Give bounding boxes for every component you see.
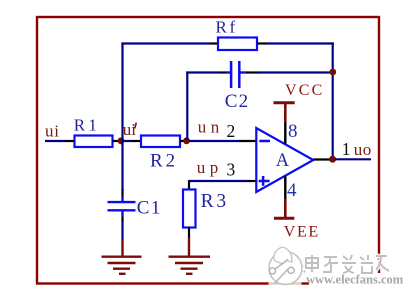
wire C2 branch horizontal: [186, 71, 219, 73]
watermark logo circle: [269, 247, 306, 286]
svg-text:ui: ui: [123, 120, 137, 139]
svg-text:2: 2: [227, 121, 236, 141]
node ui' junction dot: [118, 137, 125, 144]
wire up / pin3: [189, 180, 248, 182]
resistor R1: [65, 115, 119, 147]
svg-text:3: 3: [227, 160, 236, 180]
svg-text:ui: ui: [45, 121, 60, 140]
watermark: white occlusion of border under logo text: [376, 273, 383, 286]
svg-text:www.elecfans.com: www.elecfans.com: [306, 273, 404, 287]
node un junction dot: [183, 137, 190, 144]
svg-text:un: un: [198, 117, 224, 136]
wire ui input: [45, 140, 66, 142]
svg-text:VEE: VEE: [284, 223, 320, 240]
svg-text:R2: R2: [150, 151, 178, 172]
svg-text:R3: R3: [201, 191, 229, 212]
wire un to op-amp pin 2: [189, 140, 239, 142]
svg-text:4: 4: [287, 180, 297, 201]
output pin wire: [313, 158, 330, 160]
svg-text:Rf: Rf: [216, 18, 238, 37]
wire C2 branch vertical: [186, 72, 188, 141]
svg-text:C1: C1: [137, 197, 162, 218]
svg-text:1: 1: [342, 139, 351, 159]
minus input mark: [259, 140, 270, 143]
VEE power symbol: [274, 199, 320, 240]
junction dot C2/Rf net: [329, 69, 336, 76]
pin 4 wire: [284, 176, 286, 199]
svg-text:uo: uo: [354, 140, 372, 159]
ground (under R3): [169, 238, 211, 274]
capacitor C1: [108, 189, 162, 222]
svg-text:A: A: [276, 151, 290, 171]
watermark text 电子发烧友 (approximated strokes, white underlay): [306, 255, 389, 273]
ground (under C1): [102, 240, 142, 274]
wire ui' to R2: [123, 140, 132, 142]
wire C1 to ground: [121, 222, 123, 241]
node uo junction dot: [329, 156, 336, 163]
wire uo: [335, 158, 371, 160]
border frame: [37, 17, 379, 284]
svg-text:C2: C2: [225, 91, 250, 112]
op-amp U A: [256, 128, 313, 192]
capacitor C2: [219, 61, 258, 112]
wire right vertical (output feedback): [332, 42, 334, 159]
VCC power symbol: [274, 82, 325, 122]
svg-text:R1: R1: [74, 115, 100, 134]
svg-text:VCC: VCC: [285, 82, 325, 99]
resistor R2: [132, 136, 185, 172]
resistor Rf: [210, 18, 267, 50]
svg-text:8: 8: [288, 121, 298, 142]
resistor R3: [183, 180, 229, 238]
svg-text:up: up: [197, 158, 223, 177]
pin 8 wire: [284, 123, 286, 144]
plus input mark: [259, 180, 270, 183]
wire Rf top feedback: [121, 42, 209, 44]
wire ui' vertical (feedback tap down to C1): [121, 44, 123, 191]
